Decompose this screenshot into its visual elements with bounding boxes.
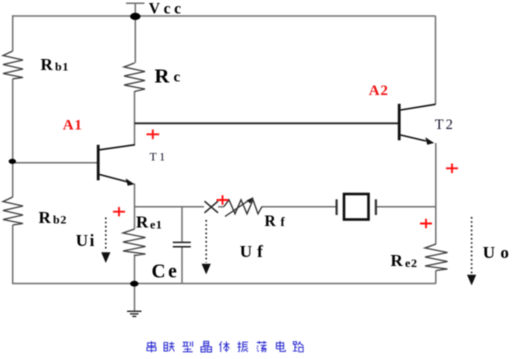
svg-text:R: R [41,55,54,74]
svg-text:Ce: Ce [152,262,180,283]
svg-text:b1: b1 [55,60,69,74]
svg-text:c: c [174,70,181,86]
svg-text:R: R [265,213,277,230]
svg-text:A2: A2 [369,83,389,99]
svg-text:Uf: Uf [240,242,268,261]
svg-text:e1: e1 [150,218,162,232]
svg-text:Ui: Ui [76,231,96,250]
svg-text:R: R [391,251,404,270]
svg-text:R: R [136,213,149,232]
svg-text:e2: e2 [405,256,418,270]
svg-text:T1: T1 [150,150,168,164]
svg-text:b2: b2 [53,213,67,227]
svg-text:R: R [155,66,170,88]
svg-text:R: R [39,208,52,227]
svg-text:T2: T2 [435,117,455,133]
svg-text:Vcc: Vcc [149,1,185,18]
svg-text:Uo: Uo [483,243,514,262]
svg-text:A1: A1 [63,118,83,134]
